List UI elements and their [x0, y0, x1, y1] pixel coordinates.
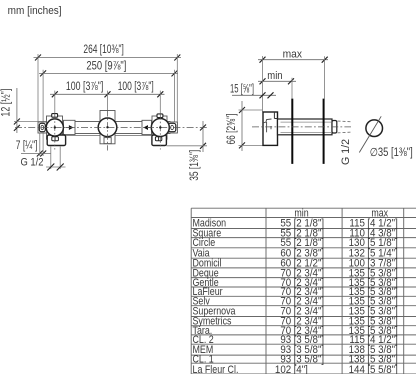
sleeve right: [142, 120, 152, 134]
valve left top tab: [52, 114, 58, 118]
side body detail line a: [266, 122, 268, 132]
port box left: [47, 135, 65, 146]
centerline left valve: [54, 113, 56, 149]
extension line x160.3: [159, 91, 161, 114]
svg-text:7 [¼"]: 7 [¼"]: [16, 140, 38, 152]
dimension 100 tick mid: [105, 91, 111, 97]
back plate edge right: [115, 135, 152, 137]
cylinder thread top: [281, 121, 332, 123]
dim 66 tick bottom: [239, 142, 245, 148]
valve middle circle: [98, 118, 117, 137]
centerline right valve: [159, 114, 161, 150]
svg-text:15 [⅝"]: 15 [⅝"]: [230, 83, 254, 95]
fitting left nut: [39, 123, 45, 131]
dimension 12 tick top: [14, 119, 20, 125]
svg-text:35 [1⅜"]: 35 [1⅜"]: [189, 150, 201, 181]
dimension 264 tick left: [35, 55, 41, 61]
table header min: [294, 208, 388, 220]
port inner right: [155, 137, 161, 141]
svg-text:La Fleur Cl.: La Fleur Cl.: [193, 364, 239, 374]
svg-text:264 [10⅜"]: 264 [10⅜"]: [83, 44, 123, 56]
dimension 7 line: [21, 153, 51, 155]
cylinder: [278, 119, 333, 135]
dimension 100 line: [50, 93, 165, 95]
min tick right: [288, 78, 294, 84]
svg-text:∅35 [1⅜"]: ∅35 [1⅜"]: [370, 147, 413, 159]
dim 15 tick left: [260, 92, 266, 98]
valve left body: [47, 116, 63, 139]
centerline side: [252, 126, 351, 128]
side body clip curve: [263, 119, 272, 123]
valve left circle: [46, 119, 63, 136]
flow arrow right: [143, 125, 150, 130]
extension x324.6 upper: [324, 56, 326, 98]
side body lip vertical: [273, 112, 275, 119]
max tick right: [322, 57, 328, 63]
valve middle bottom tab: [104, 138, 111, 144]
port inner left: [52, 137, 59, 141]
extension line x177.3: [176, 54, 178, 122]
dimension 35 tick bottom: [200, 143, 206, 149]
center dot left: [54, 126, 56, 128]
extension line x54.8: [54, 91, 56, 114]
end view circle: [366, 120, 383, 137]
rail bar: [47, 122, 171, 134]
svg-text:[4"]: [4"]: [294, 365, 308, 374]
G 1/2 tick a: [47, 164, 54, 171]
dimension 12 line: [16, 88, 18, 133]
dimension 35 line: [202, 121, 204, 152]
svg-text:G 1/2: G 1/2: [21, 156, 44, 168]
wall min: [291, 99, 293, 164]
centerline horizontal front: [15, 127, 207, 129]
flow arrow left: [66, 125, 74, 130]
dimension min line: [258, 80, 296, 82]
port inner divider left: [54, 137, 56, 141]
extension x262.5: [262, 56, 264, 112]
dimension 35 extension bottom: [167, 145, 208, 147]
fitting right nut: [168, 123, 175, 131]
extension line x43: [42, 70, 44, 122]
dimension 7 extension b: [42, 134, 44, 157]
fitting left oval: [41, 125, 44, 129]
table grid: [191, 208, 416, 374]
side body detail line b: [270, 126, 272, 129]
wall max: [323, 99, 325, 164]
dim 15 tick right: [268, 92, 274, 98]
svg-text:250 [9⅞"]: 250 [9⅞"]: [86, 60, 126, 72]
fitting right outer: [167, 122, 177, 133]
fitting left outer: [38, 122, 47, 133]
diameter leader: [359, 116, 381, 152]
svg-text:G 1/2: G 1/2: [340, 139, 352, 165]
dimension 15 line: [232, 94, 276, 96]
dimension 250 line: [39, 72, 178, 74]
dim 66 extension bottom: [239, 144, 264, 146]
svg-text:min: min: [267, 70, 282, 82]
dim 66 extension top: [239, 109, 263, 111]
port box right: [152, 135, 167, 146]
max tick left: [260, 57, 266, 63]
center dot middle: [106, 126, 108, 128]
svg-text:max: max: [283, 48, 303, 60]
tip dashed bottom: [338, 131, 352, 134]
valve right body: [152, 116, 167, 139]
dimension 100 tick left: [52, 91, 58, 97]
dimension 7 tick left: [37, 151, 43, 157]
sleeve left: [64, 120, 76, 134]
dimension 264 tick right: [174, 55, 180, 61]
dimension max line: [258, 59, 328, 61]
side body lip horizontal: [274, 118, 277, 120]
centerline middle valve: [107, 111, 109, 151]
min tick left: [260, 78, 266, 84]
valve middle body: [100, 111, 115, 144]
svg-text:66 [2⅝"]: 66 [2⅝"]: [226, 114, 238, 145]
dimension 100 tick right: [157, 91, 163, 97]
dimension 250 tick left: [40, 70, 46, 76]
dimension 264 line: [34, 57, 182, 59]
extension line x174.5: [174, 70, 176, 122]
extension line bar top left: [14, 121, 47, 123]
svg-text:mm [inches]: mm [inches]: [8, 5, 62, 17]
center dot right: [159, 126, 161, 128]
tip dashed top: [338, 120, 352, 123]
svg-text:144: 144: [349, 365, 366, 374]
dimension 66 line: [241, 101, 243, 151]
svg-text:100 [3⅞"]: 100 [3⅞"]: [66, 81, 103, 93]
G 1/2 line: [46, 166, 66, 168]
extension x292 upper: [291, 78, 293, 99]
cylinder tip: [332, 121, 337, 134]
port inner divider right: [158, 137, 160, 141]
dimension 7 extension a: [39, 134, 41, 157]
valve right circle: [151, 119, 169, 137]
extension line x107.5: [107, 91, 109, 111]
G 1/2 extension b: [59, 147, 61, 170]
svg-text:102: 102: [275, 365, 292, 374]
dimension 7 tick right: [40, 151, 46, 157]
fitting right oval: [171, 125, 174, 129]
side body block: [263, 112, 278, 145]
svg-text:100 [3⅞"]: 100 [3⅞"]: [118, 81, 154, 93]
dimension 12 tick bottom: [14, 125, 20, 131]
svg-text:[5 5/8"]: [5 5/8"]: [367, 365, 398, 374]
extension line x38: [37, 54, 39, 122]
valve right top tab: [157, 114, 163, 118]
G 1/2 extension a: [50, 147, 52, 170]
dimension 35 tick top: [200, 125, 206, 131]
cylinder thread bottom: [281, 131, 332, 133]
back plate edge left: [66, 135, 101, 137]
dimension 250 tick right: [172, 70, 178, 76]
svg-text:12 [½"]: 12 [½"]: [1, 89, 13, 117]
dim 66 tick top: [239, 107, 245, 113]
G 1/2 tick b: [57, 164, 64, 171]
